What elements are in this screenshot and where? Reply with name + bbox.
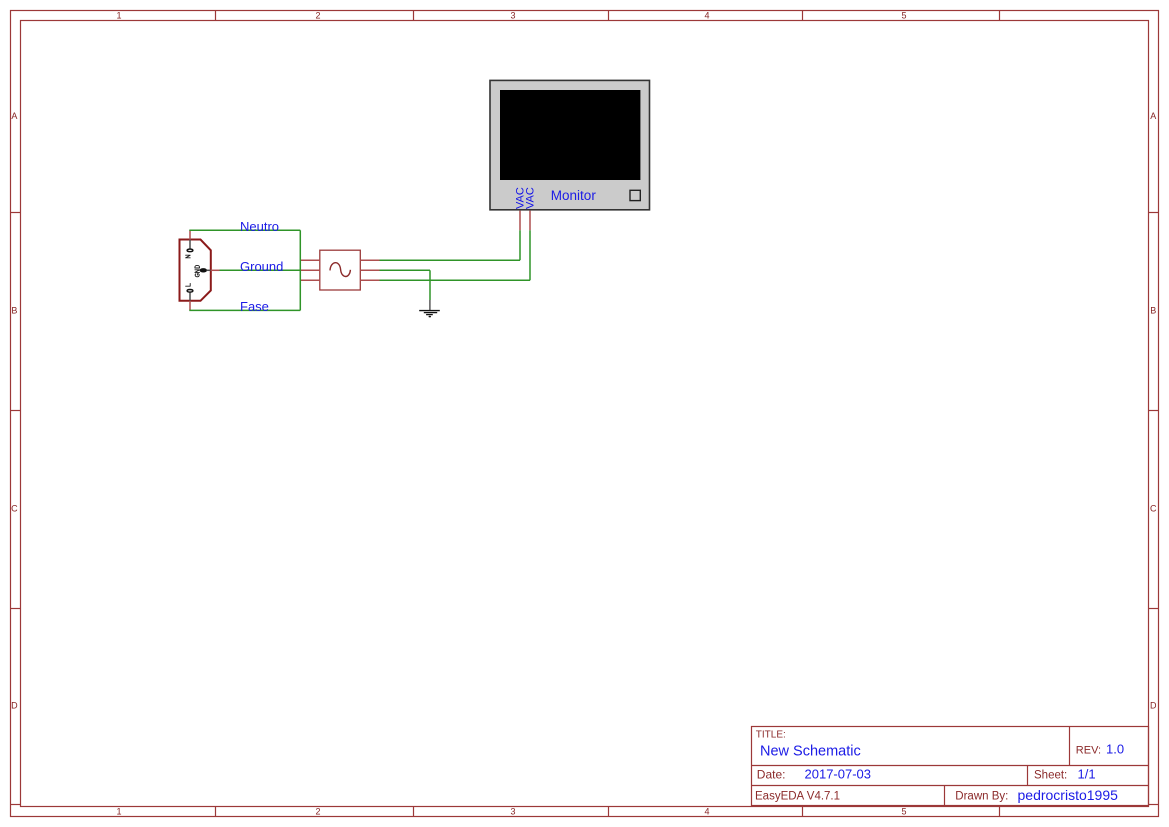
svg-text:Drawn By:: Drawn By: <box>955 790 1008 802</box>
AC source U2 box <box>320 250 361 290</box>
wire Ground horizontal <box>220 269 301 271</box>
svg-text:1.0: 1.0 <box>1106 741 1124 756</box>
wire ground vertical <box>429 270 431 300</box>
svg-text:A: A <box>11 111 17 121</box>
svg-text:REV:: REV: <box>1076 744 1101 756</box>
wire AC to ground horizontal <box>380 269 431 271</box>
plug pin name L <box>186 283 191 286</box>
plug pin GND inner lead <box>207 269 211 271</box>
svg-text:D: D <box>1150 701 1157 711</box>
AC source pin 1 stub <box>300 259 320 261</box>
svg-text:pedrocristo1995: pedrocristo1995 <box>1018 787 1119 803</box>
monitor screen <box>500 90 640 180</box>
svg-text:Sheet:: Sheet: <box>1034 769 1067 781</box>
plug pin name N <box>186 255 191 258</box>
svg-text:1: 1 <box>116 11 121 21</box>
plug pin name GND <box>195 265 200 276</box>
monitor U1 body <box>490 80 650 209</box>
svg-text:Neutro: Neutro <box>240 219 279 234</box>
svg-text:D: D <box>11 701 18 711</box>
svg-text:2: 2 <box>315 11 320 21</box>
wire AC to monitor VAC2 horizontal <box>380 279 531 281</box>
ground symbol <box>419 300 440 317</box>
svg-text:3: 3 <box>510 807 515 817</box>
wire monitor VAC2 vertical <box>529 230 531 280</box>
plug J1 body <box>180 240 211 301</box>
monitor pin VAC 2 stub <box>529 211 531 231</box>
wire AC to monitor VAC1 horizontal <box>380 259 521 261</box>
plug pin L stub <box>189 301 191 310</box>
plug pin N inner lead <box>189 240 191 249</box>
svg-text:EasyEDA V4.7.1: EasyEDA V4.7.1 <box>755 790 840 802</box>
svg-text:Monitor: Monitor <box>551 188 597 203</box>
plug pin GND ellipse <box>200 268 208 272</box>
monitor power button square <box>630 190 640 200</box>
wire monitor VAC1 vertical <box>519 230 521 260</box>
AC source sine symbol <box>330 263 350 277</box>
svg-text:New Schematic: New Schematic <box>760 743 861 759</box>
svg-text:3: 3 <box>510 11 515 21</box>
svg-text:Date:: Date: <box>757 767 786 781</box>
svg-text:Ground: Ground <box>240 259 283 274</box>
plug pin L ellipse <box>187 290 193 293</box>
svg-text:Fase: Fase <box>240 299 269 314</box>
wire vertical bus left <box>299 230 301 310</box>
plug pin GND stub <box>211 269 220 271</box>
svg-text:A: A <box>1150 111 1156 121</box>
plug pin N ellipse <box>187 249 193 252</box>
plug pin L inner lead <box>189 292 191 300</box>
svg-text:5: 5 <box>901 807 906 817</box>
monitor pin VAC 1 stub <box>519 211 521 231</box>
AC source pin 4 stub <box>360 259 379 261</box>
wire Fase horizontal <box>189 309 300 311</box>
svg-text:C: C <box>1150 504 1157 514</box>
svg-text:5: 5 <box>901 11 906 21</box>
AC source pin 5 stub <box>360 269 379 271</box>
svg-text:2: 2 <box>315 807 320 817</box>
svg-text:4: 4 <box>704 11 709 21</box>
svg-text:2017-07-03: 2017-07-03 <box>805 766 872 781</box>
svg-text:B: B <box>1150 306 1156 316</box>
AC source pin 3 stub <box>300 279 320 281</box>
svg-text:VAC: VAC <box>524 187 536 209</box>
title block <box>752 727 1149 806</box>
svg-text:B: B <box>11 306 17 316</box>
AC source pin 2 stub <box>300 269 320 271</box>
svg-text:C: C <box>11 504 18 514</box>
AC source pin 6 stub <box>360 279 379 281</box>
svg-text:TITLE:: TITLE: <box>756 729 786 740</box>
wire Neutro horizontal <box>189 229 300 231</box>
svg-text:4: 4 <box>704 807 709 817</box>
svg-text:1: 1 <box>116 807 121 817</box>
plug pin N stub <box>189 230 191 239</box>
svg-text:1/1: 1/1 <box>1078 766 1096 781</box>
